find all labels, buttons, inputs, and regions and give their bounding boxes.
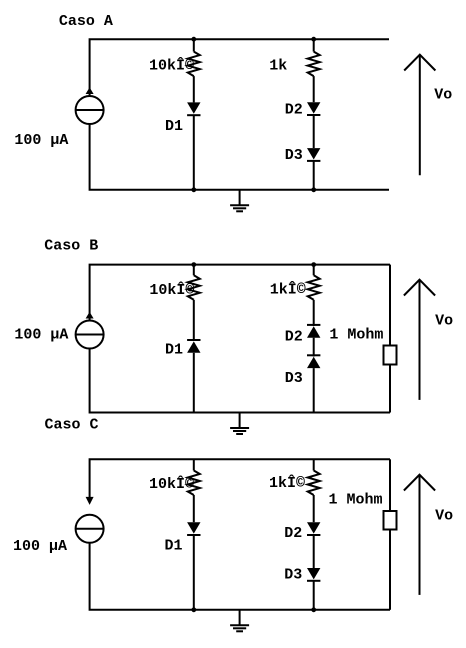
- node A bottom-right junction: [311, 187, 316, 192]
- resistor 1 Mohm (Caso C): [384, 511, 397, 530]
- resistor 10k (Caso A): [188, 52, 200, 77]
- wire A mid between R and D1: [193, 76, 195, 102]
- Vo arrow (Caso C): [404, 475, 435, 595]
- svg-text:D1: D1: [165, 342, 183, 359]
- svg-text:D1: D1: [165, 118, 183, 135]
- diode D1 (Caso A): [187, 102, 200, 115]
- ground (Caso B): [230, 413, 249, 435]
- wire A mid top: [193, 39, 195, 51]
- svg-text:100 µA: 100 µA: [14, 327, 68, 344]
- resistor 10k (Caso B): [188, 275, 200, 300]
- wire C far-right top: [389, 459, 391, 511]
- node A top-mid junction: [191, 37, 196, 42]
- svg-text:D2: D2: [284, 525, 302, 542]
- diode D3 (Caso A): [307, 148, 320, 161]
- resistor 1k (Caso B): [308, 275, 320, 300]
- wire A right between D2 and D3: [313, 115, 315, 148]
- wire A mid bottom: [193, 115, 195, 190]
- wire B right between D2 and D3: [313, 338, 315, 357]
- node B top-mid junction: [191, 262, 196, 267]
- svg-text:100 µA: 100 µA: [13, 538, 67, 555]
- node A top-right junction: [311, 37, 316, 42]
- svg-text:D1: D1: [165, 537, 183, 554]
- wire C right between R and D2: [313, 495, 315, 522]
- svg-text:D3: D3: [285, 147, 303, 164]
- wire A bottom rail: [90, 124, 389, 190]
- svg-text:D2: D2: [285, 102, 303, 119]
- svg-text:10kÎ©: 10kÎ©: [149, 56, 194, 74]
- diode D3 (Caso B): [307, 355, 320, 368]
- wire B far-right top: [389, 265, 391, 346]
- svg-text:Caso B: Caso B: [44, 237, 98, 254]
- svg-text:D3: D3: [285, 370, 303, 387]
- wire B bottom rail: [90, 349, 390, 413]
- svg-text:Caso A: Caso A: [59, 13, 113, 30]
- wire C right between D2 and D3: [313, 535, 315, 568]
- wire B right between R and D2: [313, 300, 315, 326]
- wire B right top: [313, 265, 315, 276]
- svg-text:1kÎ©: 1kÎ©: [270, 281, 306, 299]
- wire C mid between R and D1: [193, 495, 195, 522]
- wire A right bottom: [313, 161, 315, 190]
- svg-text:1k: 1k: [269, 57, 287, 74]
- wire C right bottom: [313, 581, 315, 610]
- diode D1 (Caso C): [187, 522, 200, 535]
- svg-text:10kÎ©: 10kÎ©: [149, 475, 194, 493]
- node B top-right junction: [311, 262, 316, 267]
- diode D2 (Caso C): [307, 522, 320, 535]
- wire C far-right bottom: [389, 530, 391, 610]
- diode D2 (Caso A): [307, 102, 320, 115]
- wire B mid top: [193, 265, 195, 276]
- wire C top rail: [90, 459, 390, 497]
- wire C right top: [313, 459, 315, 470]
- wire A top rail: [90, 39, 389, 96]
- resistor 1k (Caso A): [308, 52, 320, 77]
- current source I1 100uA (Caso B): [76, 312, 104, 349]
- svg-text:Vo: Vo: [435, 313, 453, 330]
- resistor 10k (Caso C): [188, 471, 200, 496]
- resistor 1k (Caso C): [308, 471, 320, 496]
- svg-text:1 Mohm: 1 Mohm: [329, 492, 383, 509]
- resistor 1 Mohm (Caso B): [384, 346, 397, 365]
- wire A right top: [313, 39, 315, 51]
- svg-text:Vo: Vo: [435, 508, 453, 525]
- svg-text:10kÎ©: 10kÎ©: [149, 281, 194, 299]
- svg-text:Vo: Vo: [434, 87, 452, 104]
- ground (Caso C): [230, 610, 249, 632]
- wire B right bottom: [313, 368, 315, 412]
- Vo arrow (Caso A): [404, 55, 435, 176]
- wire B far-right bottom: [389, 365, 391, 413]
- wire C mid bottom: [193, 535, 195, 610]
- diode D3 (Caso C): [307, 568, 320, 581]
- svg-text:Caso C: Caso C: [45, 417, 99, 434]
- svg-text:100 µA: 100 µA: [14, 132, 68, 149]
- wire C bottom rail: [90, 543, 390, 610]
- Vo arrow (Caso B): [404, 280, 435, 400]
- ground (Caso A): [230, 190, 249, 212]
- node C bottom-right junction: [311, 607, 316, 612]
- current source I1 100uA (Caso C): [76, 497, 104, 543]
- current source I1 100uA (Caso A): [76, 87, 104, 124]
- wire B mid between R and D1: [193, 300, 195, 341]
- node C bottom-mid junction: [191, 607, 196, 612]
- wire C mid top: [193, 459, 195, 470]
- svg-text:D2: D2: [285, 328, 303, 345]
- wire B top rail: [90, 265, 390, 321]
- wire B mid bottom: [193, 353, 195, 413]
- diode D1 (Caso B): [187, 340, 200, 353]
- diode D2 (Caso B): [307, 325, 320, 338]
- svg-text:D3: D3: [284, 567, 302, 584]
- svg-text:1 Mohm: 1 Mohm: [329, 327, 383, 344]
- svg-text:1kÎ©: 1kÎ©: [269, 474, 305, 492]
- node A bottom-mid junction: [191, 187, 196, 192]
- wire A right between R and D2: [313, 76, 315, 102]
